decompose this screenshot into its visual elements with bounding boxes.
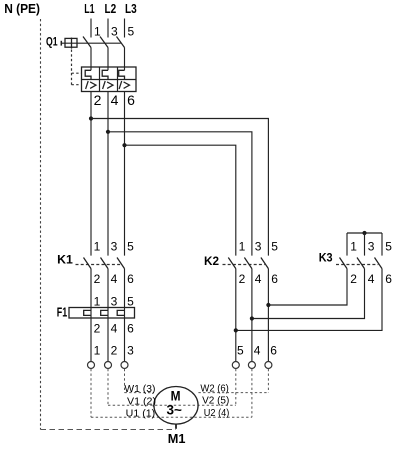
svg-text:5: 5 xyxy=(128,25,135,39)
contactor K1 linkage dashed xyxy=(76,264,122,266)
svg-text:U1 (1): U1 (1) xyxy=(126,409,156,420)
terminal wire1 xyxy=(88,362,95,369)
svg-text:3~: 3~ xyxy=(167,403,183,418)
thermal release Q1 pole 3 xyxy=(119,70,125,79)
contactor K3 contact blade pole 2 xyxy=(357,258,365,269)
svg-text:U2 (4): U2 (4) xyxy=(204,408,230,419)
wire branch L2 to K2 pin3 xyxy=(108,132,252,256)
contactor K1 contact blade pole 2 xyxy=(101,258,109,269)
thermal element F1 pole 3 xyxy=(117,310,124,315)
svg-text:1: 1 xyxy=(94,240,101,254)
contactor K2 linkage dashed xyxy=(223,264,265,266)
svg-text:M: M xyxy=(171,389,181,404)
contactor K2 contact blade pole 3 xyxy=(261,258,269,269)
svg-text:5: 5 xyxy=(127,240,134,254)
svg-text:6: 6 xyxy=(127,321,134,335)
svg-text:2: 2 xyxy=(94,321,101,335)
wire K2 pole2 down xyxy=(251,269,253,362)
wire K1 pole1 to F1 xyxy=(90,269,92,308)
wire K3 pole1 to K2 pin6 xyxy=(268,269,347,305)
svg-text:K3: K3 xyxy=(319,250,333,264)
node star point xyxy=(362,231,366,235)
svg-text:K2: K2 xyxy=(204,254,219,268)
svg-text:5: 5 xyxy=(385,240,392,254)
breaker Q1 handle tick xyxy=(60,41,62,46)
magnetic release I> Q1 pole 2 xyxy=(103,81,113,89)
wire F1 pole 3 through xyxy=(124,308,126,362)
svg-text:2: 2 xyxy=(350,272,357,286)
svg-text:4: 4 xyxy=(111,272,118,286)
breaker Q1 contact blade pole 1 xyxy=(83,37,91,48)
star bridge bar K3 xyxy=(347,232,382,234)
svg-text:Q1: Q1 xyxy=(46,35,58,49)
svg-text:1: 1 xyxy=(94,294,101,308)
terminal wire4 xyxy=(248,362,255,369)
svg-text:2: 2 xyxy=(94,272,101,286)
node tap L2 branch xyxy=(106,130,110,134)
svg-text:3: 3 xyxy=(111,294,118,308)
wire F1 pole 2 through xyxy=(107,308,109,362)
node junction K2-4/K3-4 xyxy=(250,316,254,320)
node junction K2-6/K3-2 xyxy=(266,303,270,307)
contactor K1 contact blade pole 1 xyxy=(84,258,92,269)
wire F1 pole 1 through xyxy=(90,308,92,362)
cable core wire6 drop xyxy=(267,369,269,393)
wire N(PE) vertical xyxy=(40,19,42,430)
svg-text:6: 6 xyxy=(127,272,134,286)
svg-text:F1: F1 xyxy=(57,304,67,319)
wire K1 pole2 to F1 xyxy=(107,269,109,308)
svg-text:N (PE): N (PE) xyxy=(4,2,40,16)
wire branch L1 to K2 pin5 xyxy=(91,119,268,256)
terminal wire2 xyxy=(105,362,112,369)
svg-text:4: 4 xyxy=(254,343,261,357)
svg-text:6: 6 xyxy=(270,343,277,357)
breaker Q1 release box mid divider xyxy=(82,79,137,81)
cable core wire3 drop xyxy=(124,369,126,393)
svg-text:4: 4 xyxy=(368,272,375,286)
wire K3 pole3 to K2 pin2 xyxy=(236,269,382,331)
breaker Q1 contact blade pole 3 xyxy=(117,37,125,48)
thermal release Q1 pole 2 xyxy=(102,70,108,79)
svg-text:1: 1 xyxy=(239,240,246,254)
svg-text:L3: L3 xyxy=(125,2,137,16)
wire L3 drop xyxy=(124,19,126,38)
breaker Q1 release box divider b xyxy=(117,67,119,92)
node junction K2-2/K3-6 xyxy=(234,328,238,332)
wire N(PE) bottom horizontal to motor frame xyxy=(41,429,177,431)
svg-text:4: 4 xyxy=(255,272,262,286)
cable core wire4 drop xyxy=(251,369,253,417)
overload relay F1 box xyxy=(69,308,135,319)
contactor K3 contact blade pole 3 xyxy=(375,258,383,269)
wire Q1 pole 2 output down to K1 xyxy=(107,92,109,256)
node tap L1 branch xyxy=(89,116,93,120)
cable row W1-W2 left xyxy=(125,392,154,394)
terminal wire6 xyxy=(265,362,272,369)
node tap L3 branch xyxy=(122,143,126,147)
svg-text:V1 (2): V1 (2) xyxy=(127,396,156,407)
wire Q1 pole 2 to release box xyxy=(107,48,109,71)
breaker Q1 release box divider a xyxy=(99,67,101,92)
wire L1 drop xyxy=(90,19,92,38)
terminal wire5 xyxy=(232,362,239,369)
wire L2 drop xyxy=(107,19,109,38)
breaker Q1 trip link vertical dashed xyxy=(71,50,73,85)
svg-text:3: 3 xyxy=(111,240,118,254)
wire K3 pole3 from bar xyxy=(381,233,383,256)
svg-text:4: 4 xyxy=(111,321,118,335)
wire Q1 pole 3 output down to K1 xyxy=(124,92,126,256)
wire Q1 pole 3 to release box xyxy=(124,48,126,71)
svg-text:6: 6 xyxy=(127,92,135,108)
cable row V1-V2 xyxy=(108,404,236,406)
svg-text:5: 5 xyxy=(127,294,134,308)
svg-text:1: 1 xyxy=(94,25,101,39)
svg-text:L1: L1 xyxy=(84,2,94,16)
svg-text:4: 4 xyxy=(111,92,119,108)
svg-text:3: 3 xyxy=(368,240,375,254)
svg-text:2: 2 xyxy=(239,272,246,286)
contactor K3 contact blade pole 1 xyxy=(340,258,348,269)
svg-text:6: 6 xyxy=(385,272,392,286)
magnetic release I> Q1 pole 3 xyxy=(119,81,129,89)
breaker Q1 handle box xyxy=(65,38,77,47)
wire K3 pole2 to K2 pin4 xyxy=(252,269,365,319)
svg-text:K1: K1 xyxy=(57,252,73,266)
breaker Q1 actuator wire xyxy=(61,42,121,44)
contactor K2 contact blade pole 1 xyxy=(228,258,236,269)
svg-text:2: 2 xyxy=(94,92,102,108)
magnetic release I> Q1 pole 1 xyxy=(86,81,96,89)
svg-text:1: 1 xyxy=(94,343,101,357)
svg-text:5: 5 xyxy=(271,240,278,254)
wire K1 pole3 to F1 xyxy=(124,269,126,308)
wire K2 pole1 down xyxy=(235,269,237,362)
breaker Q1 trip link lower stub dashed xyxy=(72,84,81,86)
motor M1 frame stub xyxy=(175,424,177,429)
breaker Q1 contact blade pole 2 xyxy=(100,37,108,48)
svg-text:5: 5 xyxy=(237,343,244,357)
svg-text:6: 6 xyxy=(271,272,278,286)
thermal element F1 pole 1 xyxy=(84,310,91,315)
wire branch L3 to K2 pin1 xyxy=(125,145,236,255)
terminal wire3 xyxy=(121,362,128,369)
thermal release Q1 pole 1 xyxy=(85,70,91,79)
svg-text:L2: L2 xyxy=(105,2,117,16)
svg-text:3: 3 xyxy=(255,240,262,254)
wire K3 pole1 from bar xyxy=(346,233,348,256)
svg-text:W2 (6): W2 (6) xyxy=(200,383,228,394)
wire Q1 pole 1 to release box xyxy=(90,48,92,71)
cable row U1-U2 xyxy=(91,416,252,418)
motor M1 body xyxy=(154,387,198,425)
wire Q1 pole 1 output down to K1 xyxy=(90,92,92,256)
breaker Q1 trip link upper stub dashed xyxy=(72,72,82,74)
cable core wire1 drop xyxy=(90,369,92,417)
cable row W1-W2 right xyxy=(198,392,268,394)
cable core wire5 drop xyxy=(235,369,237,405)
svg-text:W1 (3): W1 (3) xyxy=(124,384,155,395)
wire K3 pole2 from bar xyxy=(364,233,366,256)
cable core wire2 drop xyxy=(107,369,109,405)
svg-text:1: 1 xyxy=(350,240,357,254)
contactor K2 contact blade pole 2 xyxy=(244,258,252,269)
breaker Q1 handle cross xyxy=(71,38,73,49)
svg-text:V2 (5): V2 (5) xyxy=(202,396,229,407)
thermal element F1 pole 2 xyxy=(101,310,108,315)
wire K2 pole3 down xyxy=(267,269,269,362)
contactor K1 contact blade pole 3 xyxy=(117,258,125,269)
svg-text:2: 2 xyxy=(111,343,118,357)
contactor K3 linkage dashed xyxy=(336,264,378,266)
breaker Q1 release box xyxy=(82,67,137,92)
svg-text:3: 3 xyxy=(127,343,134,357)
svg-text:M1: M1 xyxy=(168,432,186,446)
